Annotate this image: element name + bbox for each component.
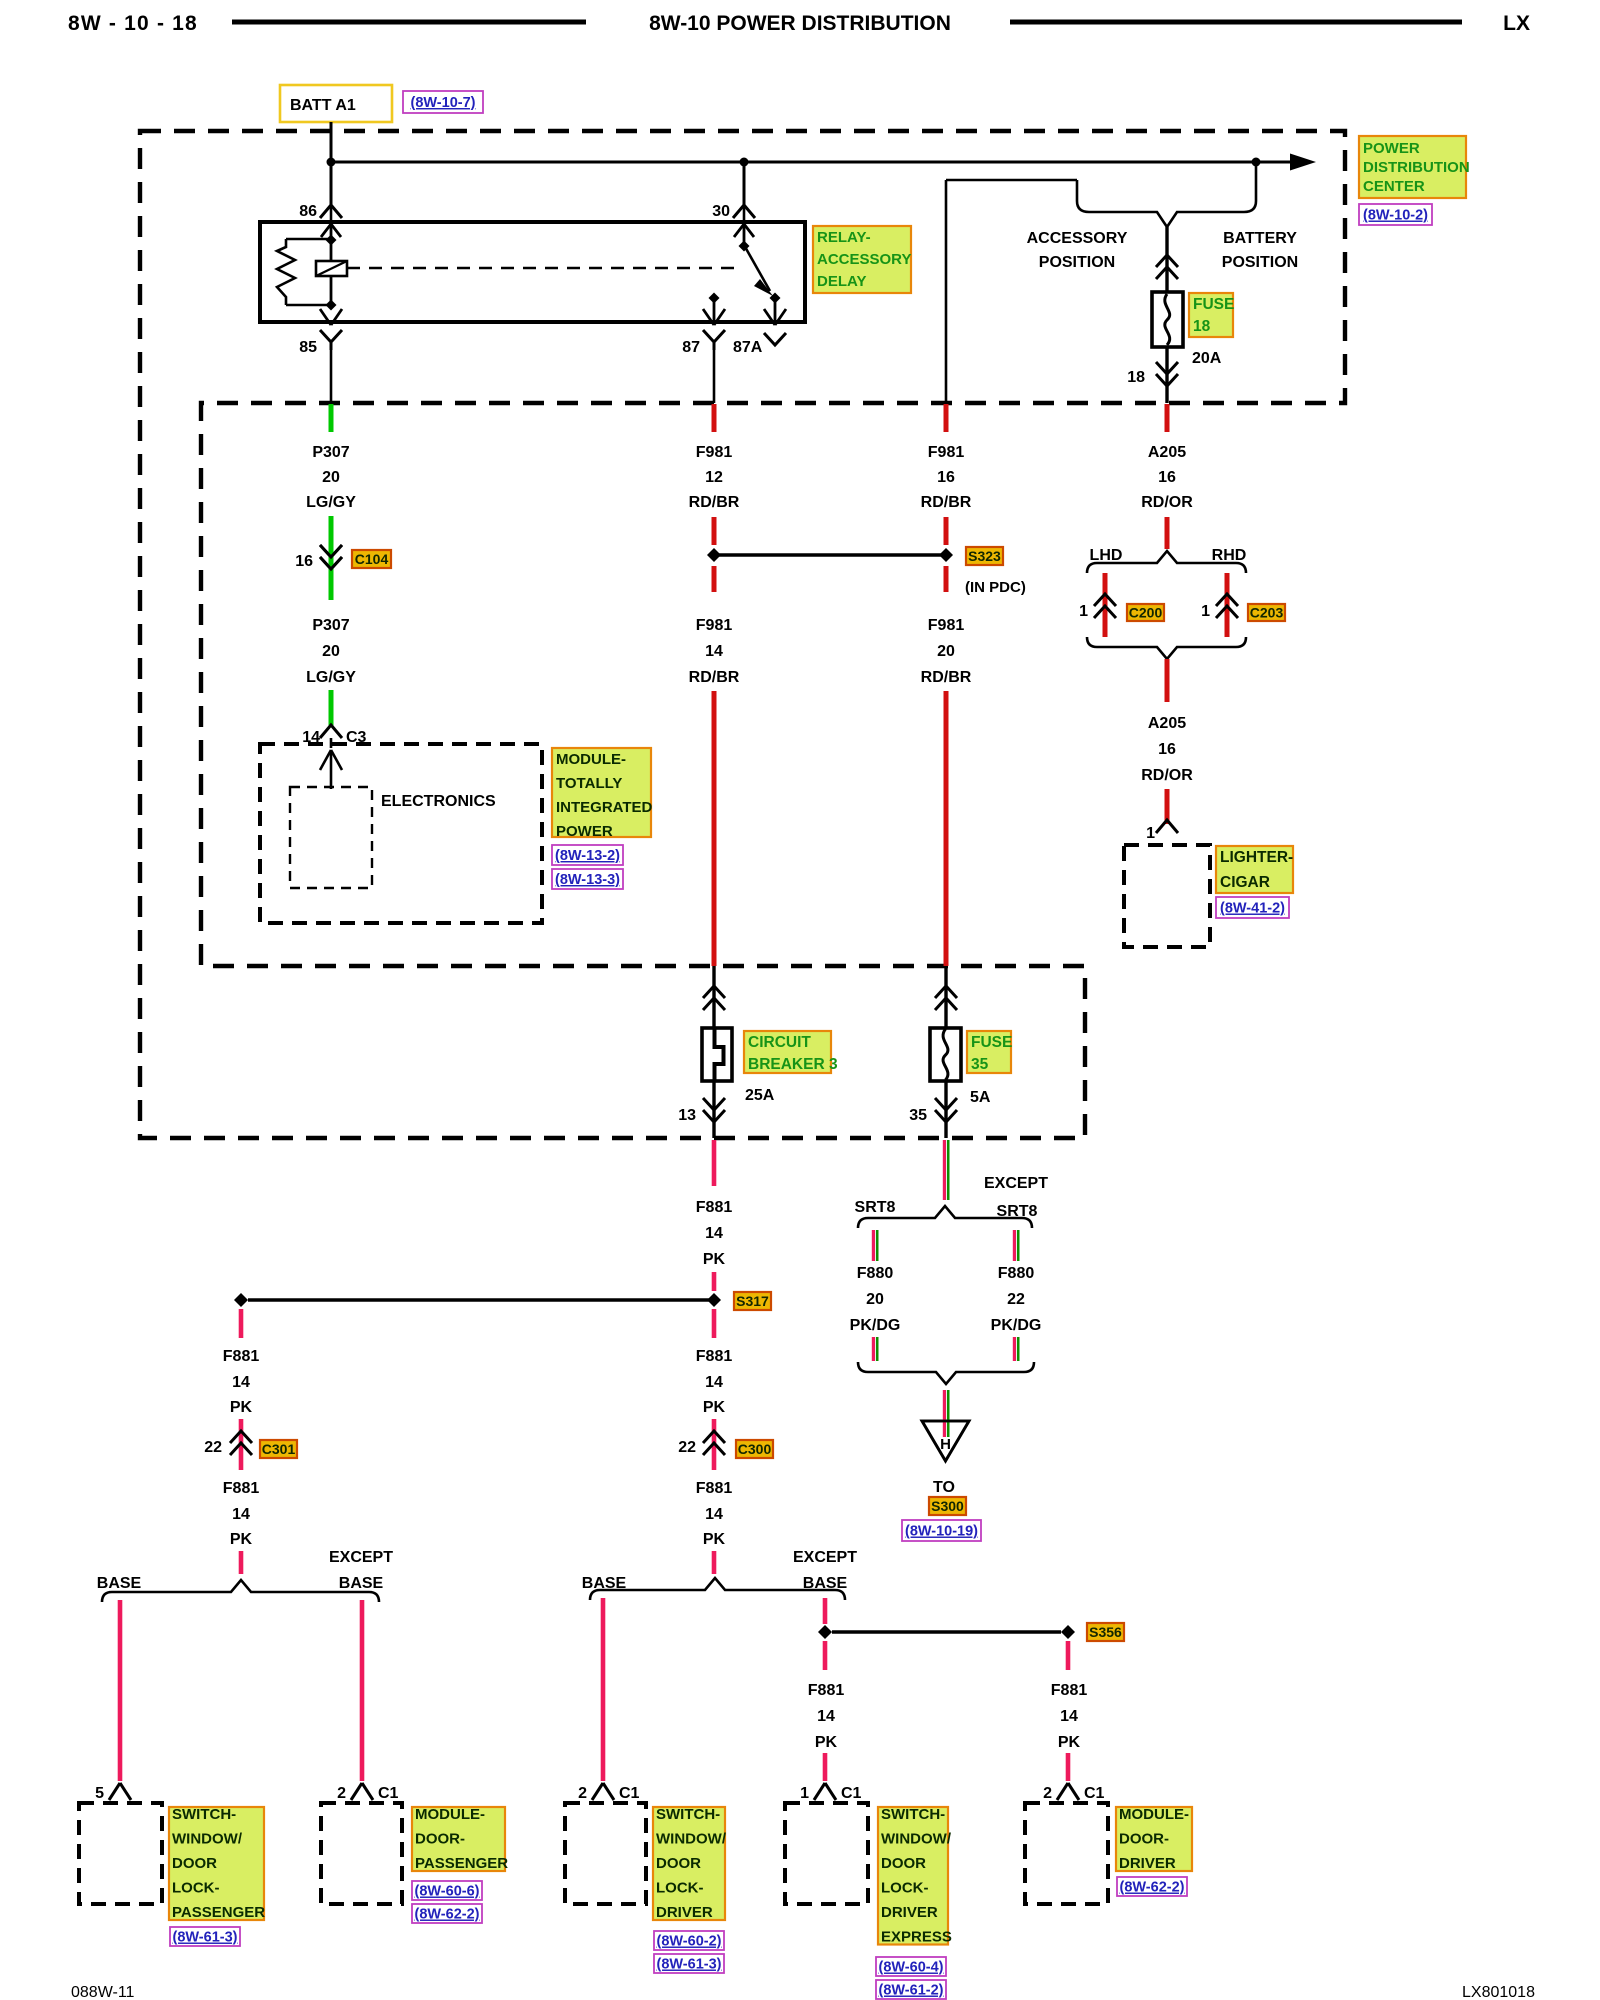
- svg-text:BASE: BASE: [582, 1575, 627, 1592]
- svg-text:C203: C203: [1250, 605, 1284, 621]
- svg-text:BASE: BASE: [339, 1575, 384, 1592]
- svg-text:(8W-13-2): (8W-13-2): [555, 848, 620, 864]
- svg-text:MODULE-: MODULE-: [556, 751, 626, 768]
- svg-text:LOCK-: LOCK-: [656, 1880, 704, 1897]
- svg-text:(8W-60-2): (8W-60-2): [657, 1934, 722, 1950]
- svg-text:5: 5: [95, 1785, 104, 1802]
- svg-text:PK: PK: [703, 1399, 726, 1416]
- svg-text:POWER: POWER: [1363, 140, 1420, 157]
- svg-text:16: 16: [1158, 469, 1176, 486]
- svg-text:(8W-61-3): (8W-61-3): [173, 1930, 238, 1946]
- svg-text:P307: P307: [312, 617, 349, 634]
- svg-text:RD/BR: RD/BR: [921, 494, 972, 511]
- svg-text:INTEGRATED: INTEGRATED: [556, 799, 653, 816]
- svg-text:A205: A205: [1148, 715, 1186, 732]
- svg-text:SRT8: SRT8: [855, 1199, 896, 1216]
- svg-text:14: 14: [817, 1708, 835, 1725]
- svg-text:(8W-10-2): (8W-10-2): [1363, 208, 1428, 224]
- svg-text:PK/DG: PK/DG: [991, 1317, 1042, 1334]
- svg-text:LIGHTER-: LIGHTER-: [1220, 849, 1293, 866]
- svg-text:16: 16: [937, 469, 955, 486]
- svg-text:F881: F881: [696, 1199, 733, 1216]
- svg-text:RD/OR: RD/OR: [1141, 494, 1193, 511]
- svg-text:ACCESSORY: ACCESSORY: [817, 251, 911, 268]
- svg-text:MODULE-: MODULE-: [415, 1806, 485, 1823]
- svg-text:14: 14: [232, 1374, 250, 1391]
- svg-text:PK: PK: [1058, 1734, 1081, 1751]
- svg-text:LX: LX: [1503, 12, 1530, 35]
- svg-text:C1: C1: [1084, 1785, 1105, 1802]
- svg-text:S356: S356: [1089, 1624, 1122, 1640]
- svg-text:1: 1: [1079, 603, 1088, 620]
- svg-text:EXCEPT: EXCEPT: [984, 1175, 1048, 1192]
- svg-text:(8W-10-7): (8W-10-7): [411, 95, 476, 111]
- svg-text:FUSE: FUSE: [971, 1034, 1012, 1051]
- svg-text:F881: F881: [223, 1348, 260, 1365]
- svg-text:SWITCH-: SWITCH-: [172, 1806, 236, 1823]
- svg-text:PK: PK: [815, 1734, 838, 1751]
- svg-text:1: 1: [1146, 825, 1155, 842]
- svg-text:EXPRESS: EXPRESS: [881, 1929, 952, 1946]
- svg-text:DRIVER: DRIVER: [656, 1904, 713, 1921]
- svg-text:C300: C300: [738, 1441, 772, 1457]
- svg-text:EXCEPT: EXCEPT: [793, 1549, 857, 1566]
- svg-text:20: 20: [866, 1291, 884, 1308]
- svg-text:DRIVER: DRIVER: [1119, 1855, 1176, 1872]
- svg-text:C1: C1: [378, 1785, 399, 1802]
- svg-text:14: 14: [232, 1506, 250, 1523]
- svg-text:H: H: [940, 1436, 951, 1453]
- svg-text:WINDOW/: WINDOW/: [881, 1831, 952, 1848]
- svg-text:1: 1: [1201, 603, 1210, 620]
- svg-text:(8W-10-19): (8W-10-19): [905, 1524, 978, 1540]
- svg-text:F981: F981: [696, 617, 733, 634]
- svg-text:14: 14: [705, 643, 723, 660]
- svg-text:F880: F880: [857, 1265, 894, 1282]
- svg-text:WINDOW/: WINDOW/: [172, 1831, 243, 1848]
- svg-text:ELECTRONICS: ELECTRONICS: [381, 793, 496, 810]
- svg-text:PASSENGER: PASSENGER: [172, 1904, 265, 1921]
- svg-text:F981: F981: [696, 444, 733, 461]
- svg-text:DOOR-: DOOR-: [1119, 1831, 1169, 1848]
- svg-text:8W-10 POWER DISTRIBUTION: 8W-10 POWER DISTRIBUTION: [649, 12, 951, 35]
- svg-text:14: 14: [705, 1506, 723, 1523]
- svg-text:DOOR-: DOOR-: [415, 1831, 465, 1848]
- svg-text:(8W-62-2): (8W-62-2): [1120, 1880, 1185, 1896]
- svg-text:20: 20: [322, 469, 340, 486]
- svg-text:C104: C104: [355, 551, 389, 567]
- svg-text:C1: C1: [841, 1785, 862, 1802]
- svg-text:LOCK-: LOCK-: [172, 1880, 220, 1897]
- svg-text:LG/GY: LG/GY: [306, 669, 356, 686]
- svg-text:(8W-13-3): (8W-13-3): [555, 872, 620, 888]
- svg-text:CIRCUIT: CIRCUIT: [748, 1034, 811, 1051]
- svg-text:A205: A205: [1148, 444, 1186, 461]
- svg-text:RHD: RHD: [1212, 547, 1247, 564]
- svg-text:30: 30: [712, 203, 730, 220]
- svg-text:14: 14: [1060, 1708, 1078, 1725]
- svg-text:RD/BR: RD/BR: [689, 669, 740, 686]
- svg-text:DOOR: DOOR: [172, 1855, 217, 1872]
- svg-text:DELAY: DELAY: [817, 273, 866, 290]
- svg-text:2: 2: [578, 1785, 587, 1802]
- svg-text:DOOR: DOOR: [881, 1855, 926, 1872]
- svg-text:2: 2: [1043, 1785, 1052, 1802]
- svg-text:088W-11: 088W-11: [71, 1984, 135, 2000]
- svg-text:25A: 25A: [745, 1087, 775, 1104]
- svg-text:(8W-61-3): (8W-61-3): [657, 1957, 722, 1973]
- svg-text:F881: F881: [1051, 1682, 1088, 1699]
- svg-text:S300: S300: [931, 1498, 964, 1514]
- svg-text:8W - 10 - 18: 8W - 10 - 18: [68, 12, 198, 35]
- svg-text:F880: F880: [998, 1265, 1035, 1282]
- svg-text:PK/DG: PK/DG: [850, 1317, 901, 1334]
- svg-text:DOOR: DOOR: [656, 1855, 701, 1872]
- svg-text:F981: F981: [928, 617, 965, 634]
- svg-text:85: 85: [299, 339, 317, 356]
- svg-text:RD/OR: RD/OR: [1141, 767, 1193, 784]
- svg-text:PK: PK: [230, 1531, 253, 1548]
- svg-text:S317: S317: [736, 1293, 769, 1309]
- svg-text:CENTER: CENTER: [1363, 178, 1425, 195]
- svg-text:F881: F881: [223, 1480, 260, 1497]
- svg-text:5A: 5A: [970, 1089, 991, 1106]
- svg-text:1: 1: [800, 1785, 809, 1802]
- svg-text:F981: F981: [928, 444, 965, 461]
- svg-text:LHD: LHD: [1090, 547, 1123, 564]
- svg-text:(8W-41-2): (8W-41-2): [1220, 901, 1285, 917]
- svg-text:16: 16: [295, 553, 313, 570]
- svg-text:(8W-60-6): (8W-60-6): [415, 1884, 480, 1900]
- svg-text:BATTERY: BATTERY: [1223, 230, 1297, 247]
- svg-text:(IN PDC): (IN PDC): [965, 579, 1026, 596]
- svg-text:18: 18: [1193, 318, 1211, 335]
- svg-text:DISTRIBUTION: DISTRIBUTION: [1363, 159, 1470, 176]
- svg-text:BASE: BASE: [803, 1575, 848, 1592]
- svg-text:22: 22: [1007, 1291, 1025, 1308]
- svg-text:C200: C200: [1129, 605, 1163, 621]
- svg-text:2: 2: [337, 1785, 346, 1802]
- svg-text:F881: F881: [808, 1682, 845, 1699]
- svg-text:MODULE-: MODULE-: [1119, 1806, 1189, 1823]
- svg-text:C301: C301: [262, 1441, 296, 1457]
- svg-text:RD/BR: RD/BR: [921, 669, 972, 686]
- svg-text:18: 18: [1127, 369, 1145, 386]
- svg-text:WINDOW/: WINDOW/: [656, 1831, 727, 1848]
- svg-text:EXCEPT: EXCEPT: [329, 1549, 393, 1566]
- svg-text:POWER: POWER: [556, 823, 613, 840]
- svg-text:PASSENGER: PASSENGER: [415, 1855, 508, 1872]
- svg-text:LX801018: LX801018: [1462, 1984, 1535, 2000]
- svg-text:87A: 87A: [733, 339, 763, 356]
- svg-text:SWITCH-: SWITCH-: [881, 1806, 945, 1823]
- svg-text:86: 86: [299, 203, 317, 220]
- svg-text:BASE: BASE: [97, 1575, 142, 1592]
- svg-text:PK: PK: [230, 1399, 253, 1416]
- svg-text:ACCESSORY: ACCESSORY: [1027, 230, 1128, 247]
- svg-text:SWITCH-: SWITCH-: [656, 1806, 720, 1823]
- svg-text:DRIVER: DRIVER: [881, 1904, 938, 1921]
- svg-text:13: 13: [678, 1107, 696, 1124]
- svg-text:20A: 20A: [1192, 350, 1222, 367]
- svg-text:POSITION: POSITION: [1039, 254, 1115, 271]
- svg-text:RD/BR: RD/BR: [689, 494, 740, 511]
- svg-text:TOTALLY: TOTALLY: [556, 775, 622, 792]
- svg-text:FUSE: FUSE: [1193, 296, 1234, 313]
- svg-text:F881: F881: [696, 1480, 733, 1497]
- svg-text:(8W-62-2): (8W-62-2): [415, 1907, 480, 1923]
- svg-text:35: 35: [971, 1056, 989, 1073]
- svg-text:14: 14: [705, 1225, 723, 1242]
- svg-text:BREAKER 3: BREAKER 3: [748, 1056, 838, 1073]
- svg-text:(8W-61-2): (8W-61-2): [879, 1983, 944, 1999]
- svg-text:PK: PK: [703, 1251, 726, 1268]
- svg-text:BATT A1: BATT A1: [290, 97, 356, 114]
- svg-text:F881: F881: [696, 1348, 733, 1365]
- svg-text:CIGAR: CIGAR: [1220, 874, 1270, 891]
- svg-text:(8W-60-4): (8W-60-4): [879, 1960, 944, 1976]
- svg-text:RELAY-: RELAY-: [817, 229, 871, 246]
- svg-text:S323: S323: [968, 548, 1001, 564]
- svg-text:22: 22: [678, 1439, 696, 1456]
- svg-text:POSITION: POSITION: [1222, 254, 1298, 271]
- svg-text:87: 87: [682, 339, 700, 356]
- svg-text:P307: P307: [312, 444, 349, 461]
- svg-text:LOCK-: LOCK-: [881, 1880, 929, 1897]
- svg-text:14: 14: [705, 1374, 723, 1391]
- svg-text:12: 12: [705, 469, 723, 486]
- svg-text:LG/GY: LG/GY: [306, 494, 356, 511]
- svg-text:PK: PK: [703, 1531, 726, 1548]
- svg-text:16: 16: [1158, 741, 1176, 758]
- svg-text:35: 35: [909, 1107, 927, 1124]
- svg-text:C1: C1: [619, 1785, 640, 1802]
- svg-text:22: 22: [204, 1439, 222, 1456]
- svg-text:20: 20: [937, 643, 955, 660]
- svg-text:TO: TO: [933, 1479, 955, 1496]
- svg-text:20: 20: [322, 643, 340, 660]
